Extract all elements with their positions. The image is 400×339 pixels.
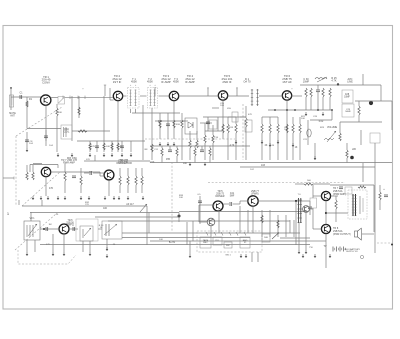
volume pot [324,131,336,142]
dashed vertical x243 [242,104,244,160]
wire TR7 collector [50,171,100,173]
label 100 [103,208,108,210]
ground [159,142,162,146]
wire [181,128,183,160]
switch section tape [200,237,211,248]
wire [329,97,331,110]
plus [383,188,385,191]
label [176,124,181,126]
ground [314,156,317,160]
plus mark [291,88,293,91]
resistor [194,148,196,156]
label R25 [331,77,337,83]
dashed line y182 [208,182,345,184]
label B+ [169,242,176,244]
label R32 [85,202,90,206]
wire [82,241,84,252]
svg-text:CONV: CONV [42,80,50,84]
resistor [141,176,143,185]
wire x149 [148,213,150,234]
wire stub x363 [362,74,364,85]
resistor [64,172,66,181]
wire y121 [155,120,185,122]
indicator lamp [360,255,363,258]
label TR1 [42,75,51,84]
tuning gang dashed link [16,107,62,136]
wire [310,97,312,110]
wire TR1 collector [51,97,59,99]
wire [52,234,54,252]
wire [252,205,254,233]
wire [26,165,28,172]
label 455b [227,108,231,110]
trimmer arrow [59,98,65,104]
svg-text:103: 103 [158,120,163,123]
label driver [118,159,128,165]
wire long vertical x375 [374,143,376,253]
ground [80,196,83,200]
ground [240,254,243,258]
wire [346,143,348,150]
label tape [203,239,209,244]
wire y101 [355,100,392,102]
ground [113,196,116,200]
ground [52,252,55,256]
wire [189,241,191,254]
label 560 [307,180,311,182]
label 2SB178 [61,159,77,165]
capacitor [44,136,48,138]
detector block [185,118,197,134]
wire [212,143,214,160]
resistor [26,172,28,180]
label [230,145,235,147]
label R21 [301,116,306,120]
svg-text:50MF: 50MF [345,111,351,113]
wire [196,131,198,140]
wire [135,168,137,176]
resistor [305,88,307,97]
svg-text:LINE: LINE [347,81,353,84]
wire stub [41,200,43,206]
capacitor [200,150,204,152]
wire rail y212 [30,212,179,214]
label C41 [230,193,235,197]
wire [176,156,178,163]
wire TR5 emitter [286,100,288,160]
wire T1 lead [135,109,137,113]
label 104 [49,145,53,147]
wire [64,181,66,193]
wire [235,133,237,160]
wire [210,226,212,237]
svg-text:ANT: ANT [10,114,15,117]
resistor [173,120,175,128]
resistor R3 [89,143,91,150]
resistor [277,124,279,133]
wire [299,117,301,124]
wire [305,212,307,250]
svg-text:MIC: MIC [226,245,230,247]
wire [314,143,316,160]
wire [335,196,337,200]
wire [251,252,253,262]
resistor [159,120,161,128]
label TR4 [185,74,195,84]
label TR6 [282,74,292,84]
svg-text:47K: 47K [91,146,95,148]
junction [43,228,45,230]
resistor [176,148,178,156]
ground [261,140,264,144]
wire [223,203,229,205]
box small detector [232,112,238,122]
stub tick [104,84,106,86]
wire TR8 emitter [108,180,110,196]
dashed gang vertical x16 [15,136,17,205]
ground [277,140,280,144]
svg-text:VR 1: VR 1 [29,218,35,220]
wire x79 [78,96,80,118]
resistor [292,124,294,133]
wire [178,213,180,223]
label TR7 pwr [333,187,346,196]
wire stub frame left [3,177,14,179]
label [214,137,219,139]
label 10K [58,112,62,114]
label TR6 audio [251,190,260,195]
ground [26,148,29,152]
ground [292,143,295,147]
label C20 [284,127,289,131]
label 47K [46,244,50,246]
plus mark [207,88,209,91]
label TR8 pwr [333,227,351,236]
antenna terminal [10,87,12,89]
wire x147 [146,206,148,245]
label 25b [113,244,116,246]
svg-text:COIL: COIL [64,130,70,133]
wire [141,185,143,193]
wire [189,131,191,140]
wire y122 [340,121,382,123]
svg-text:10K: 10K [301,118,305,120]
wire TR2 to T1 [122,95,126,97]
resistor [286,124,288,133]
wire x200 [199,196,201,224]
svg-text:SUPPLY 6V: SUPPLY 6V [346,251,358,253]
ground [89,252,92,256]
resistor [119,176,121,185]
wire [379,185,381,192]
ground [142,196,145,200]
switch enclosure dashed box [197,231,262,252]
label [154,149,159,151]
wire [261,133,263,160]
resistor R4 [103,143,105,150]
resistor [161,148,163,156]
wire TR5 out [291,95,302,97]
wire [110,99,114,101]
ground [106,254,109,258]
wire antenna lead [10,88,12,110]
junction [294,109,296,111]
wire [313,183,330,185]
ground [269,143,272,147]
transistor TR10 driver [213,201,223,211]
wire x187 [186,222,188,245]
label mic [226,245,230,247]
box small [345,187,352,194]
wire y110 [300,109,332,111]
label T6 [297,194,301,196]
wire TR4 out [227,95,249,97]
ground [302,254,305,258]
wire [199,221,207,223]
plus mark [82,88,84,91]
wire [26,132,28,148]
junction [337,83,339,85]
pot block [80,226,93,241]
wire y146 [150,145,250,147]
resistor [222,124,224,133]
svg-text:VOLUME: VOLUME [327,126,338,129]
svg-text:OA 70: OA 70 [243,80,251,84]
wire y233 [122,232,300,234]
resistor [261,215,263,223]
label [320,127,325,129]
wire [346,158,348,163]
svg-text:4.7K: 4.7K [331,80,336,83]
wire stub x105 [104,85,106,96]
switch arrow [272,233,279,240]
ground [57,153,60,157]
wire [257,252,259,262]
wire [127,185,129,193]
label amplifier [66,220,74,227]
wire [207,117,209,131]
wire speaker [362,233,374,235]
wire [228,116,236,118]
label [145,149,149,151]
label [265,145,268,147]
dashed vertical x172 [171,162,173,232]
label 103b [261,164,266,167]
wire [292,133,294,160]
svg-text:455K: 455K [147,80,153,84]
wire [209,156,211,163]
wire corner [380,85,382,101]
wire [89,241,91,252]
wire [269,133,271,160]
label 455 [166,158,171,161]
wire x240 [239,206,241,233]
resistor [322,88,324,97]
wire [57,165,59,169]
label R40 [264,237,269,239]
transistor TR13 power amp [321,191,330,200]
resistor R9 [196,140,198,148]
wire ticks [63,96,85,99]
ground [40,196,43,200]
pot wiper arrow [140,204,147,212]
capacitor C28 [342,90,353,103]
speaker [355,228,362,240]
label TW [309,247,313,249]
capacitor [339,187,343,189]
label TR5 audio [215,190,224,198]
svg-text:(PWR OUTPUT): (PWR OUTPUT) [333,233,351,236]
photocell block [24,221,40,240]
wire x27 vertical [26,97,28,129]
svg-text:IF AMP: IF AMP [185,80,195,84]
wire [80,168,82,176]
label 103 [158,120,163,123]
junction [295,200,297,202]
wire TR1 emitter down [45,104,47,141]
plus mark [154,85,156,87]
dashed gang link 3 [15,213,57,250]
ground [71,153,74,157]
box R40 [262,234,270,242]
capacitor [72,176,76,178]
dashed gang link 2 [22,172,60,206]
wire [56,116,58,152]
capacitor [198,201,202,203]
wire x168 [167,113,169,139]
svg-text:455K: 455K [131,80,137,84]
label 1M [48,224,51,226]
wire y128 [27,128,61,130]
wire step [99,172,101,176]
wire rail y161 [84,160,150,162]
wire x143 [142,105,144,160]
wire [80,185,82,193]
label 0.5 [197,194,201,196]
resistor [277,220,279,228]
label T3 [173,77,179,84]
svg-text:10K: 10K [179,197,183,199]
svg-text:10K: 10K [183,163,188,165]
wire bottom bus y244 [40,244,310,246]
svg-text:2K: 2K [265,145,268,147]
wire [227,133,229,160]
label C21 [303,139,308,141]
ground [127,196,130,200]
wire [141,168,143,176]
wire [269,210,271,237]
pot block inner [83,228,91,238]
wire [26,240,28,252]
diode D1 symbol [188,122,193,128]
wire [262,116,278,118]
wire [198,205,200,222]
ground [103,153,106,157]
terminal [391,244,393,246]
wire y120 [310,119,332,121]
label C1 [20,93,24,95]
label R36 [99,225,104,229]
ground [64,196,67,200]
wire [339,122,341,133]
svg-text:(PWR): (PWR) [251,192,258,195]
wire y131b [205,130,222,132]
wire [40,228,59,230]
wire rail y211 right [179,211,307,213]
resistor osc [78,130,87,132]
wire x160 [159,113,161,139]
label pu [216,240,220,242]
wire [235,117,237,124]
box component [342,104,354,117]
switch section 2 [213,237,222,245]
svg-text:DRIVER: DRIVER [118,162,128,165]
junction [317,109,319,111]
wire [161,146,163,148]
svg-text:10MF: 10MF [344,96,350,98]
wire TR2 emitter [117,100,119,152]
wire [331,195,338,197]
label 2.2K [270,145,275,147]
ground [329,254,332,258]
wire T3 to TR5 [259,95,283,97]
wire [194,146,196,148]
svg-text:IF AMP: IF AMP [161,80,171,84]
svg-text:10K: 10K [106,146,110,148]
wire [309,201,311,215]
capacitor [73,227,75,231]
wire TR3 to TR4 [178,95,218,97]
IF transformer T2 [148,88,158,109]
wire [200,122,212,124]
wire [130,141,132,152]
wire [199,204,215,206]
resistor [78,107,80,115]
wire [261,117,263,124]
wire [358,101,360,106]
wire [227,117,229,124]
wire T1 lead [130,109,132,113]
wire [111,141,113,152]
label AF117 [126,203,134,206]
capacitor [384,195,388,197]
wire y113 [132,112,180,114]
wire [194,156,196,163]
wire T2 to TR3 [159,95,170,97]
trimmer C6 [58,97,65,105]
ground [32,196,35,200]
resistor [379,192,381,200]
wire [135,185,137,193]
svg-text:P.U.: P.U. [216,240,220,242]
capacitor [206,122,210,124]
ground [189,254,192,258]
wire stub [236,87,238,96]
label 0.02 [319,121,324,123]
wire y238 right [280,237,310,239]
wire x313 [312,185,314,198]
wire vertical x72 [71,96,73,141]
IF transformer T3 [251,89,259,106]
transformer T5 [102,221,122,239]
wire [93,172,105,174]
wire [218,209,220,233]
wire [310,240,326,242]
svg-text:5MF: 5MF [230,195,235,197]
ground [298,250,301,254]
svg-text:1K: 1K [295,147,298,149]
resistor [346,150,348,158]
